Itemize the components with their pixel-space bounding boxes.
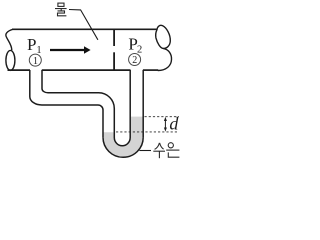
node circle 2	[129, 54, 141, 66]
pipe bottom wall right segment	[143, 69, 158, 71]
water label pointer line	[69, 10, 98, 40]
U-tube inner bend	[114, 138, 130, 146]
mercury label pointer line	[139, 150, 151, 152]
mercury fill in U-tube	[103, 117, 142, 157]
svg-text:2: 2	[137, 44, 142, 55]
right manometer tube right wall	[142, 70, 144, 137]
left pressure tap outer wall (down, right, down to U)	[30, 70, 103, 137]
lower dashed level line	[116, 131, 179, 133]
U-tube outer bend	[103, 137, 143, 157]
pipe top wall	[12, 28, 157, 30]
pipe bottom wall middle segment	[42, 69, 131, 71]
svg-text:1: 1	[33, 56, 38, 67]
svg-text:2: 2	[132, 55, 137, 66]
right manometer tube left wall	[129, 70, 131, 138]
flow arrow	[50, 49, 85, 51]
left pressure tap inner wall	[42, 70, 114, 138]
orifice plate lower segment	[113, 52, 115, 70]
upper dashed level line	[145, 116, 180, 118]
left pipe-break symbol	[6, 29, 13, 50]
mercury label 수은 (drawn strokes)	[153, 143, 179, 159]
node circle 1	[29, 54, 41, 66]
water label 물 (drawn strokes)	[55, 3, 67, 16]
svg-text:d: d	[169, 113, 179, 133]
svg-text:P: P	[27, 35, 36, 54]
pipe bottom wall left segment	[8, 69, 31, 71]
orifice plate upper segment	[113, 30, 115, 46]
dimension arrow d	[164, 119, 166, 131]
right pipe-break symbol	[156, 25, 171, 48]
